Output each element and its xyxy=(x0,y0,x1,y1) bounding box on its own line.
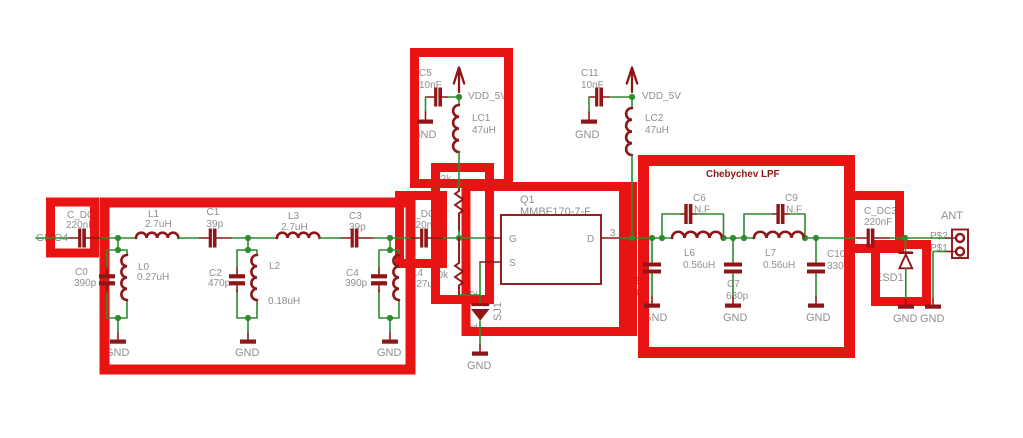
svg-text:220nF: 220nF xyxy=(864,217,892,228)
svg-text:P$2: P$2 xyxy=(930,231,948,242)
svg-text:GND: GND xyxy=(575,129,600,141)
svg-text:GND: GND xyxy=(920,313,945,325)
svg-text:VDD_5V: VDD_5V xyxy=(642,91,681,102)
svg-text:0.56uH: 0.56uH xyxy=(763,260,795,271)
resistor R1 22k xyxy=(455,189,463,231)
svg-text:C1: C1 xyxy=(207,207,220,218)
highlight box Q1 right edge extra xyxy=(628,182,637,336)
highlight box C_DC1 xyxy=(51,202,95,253)
capacitor C2 xyxy=(229,268,245,292)
svg-text:GND: GND xyxy=(467,360,492,372)
capacitor C6 bypass xyxy=(659,204,727,241)
svg-text:47uH: 47uH xyxy=(472,125,496,136)
ground ESD1 xyxy=(898,299,914,309)
capacitor C9 bypass xyxy=(741,204,808,241)
inductor L2 xyxy=(251,255,257,300)
svg-text:Chebychev LPF: Chebychev LPF xyxy=(706,169,780,180)
ground C7 xyxy=(725,297,741,308)
wire xyxy=(101,237,136,239)
capacitor C_DC3 xyxy=(858,229,890,248)
capacitor C0 xyxy=(99,268,115,292)
svg-text:L6: L6 xyxy=(684,248,696,259)
svg-text:470p: 470p xyxy=(208,278,231,289)
pin G wire xyxy=(487,237,501,239)
highlight box C_DC3 xyxy=(850,196,900,249)
ground branch3 xyxy=(382,333,398,344)
wire xyxy=(804,237,858,239)
svg-text:C3: C3 xyxy=(349,211,362,222)
svg-text:2.7uH: 2.7uH xyxy=(281,222,308,233)
svg-text:390p: 390p xyxy=(74,278,97,289)
svg-text:390p: 390p xyxy=(345,278,368,289)
svg-text:10nF: 10nF xyxy=(419,80,442,91)
svg-text:C10: C10 xyxy=(827,249,846,260)
ground SJ1 xyxy=(472,321,488,356)
diode ESD1 xyxy=(899,238,912,299)
inductor L7 xyxy=(754,232,804,238)
svg-text:L2: L2 xyxy=(269,261,281,272)
inductor LC1 xyxy=(453,97,459,189)
wire branch3 stem xyxy=(379,238,399,333)
capacitor C_DC1 xyxy=(69,229,101,248)
wire branch2 stem xyxy=(237,238,257,333)
svg-text:C11: C11 xyxy=(581,68,599,79)
svg-text:G: G xyxy=(509,234,517,245)
wire branch1 stem xyxy=(107,238,127,333)
svg-text:GND: GND xyxy=(377,347,402,359)
resistor R2 10k xyxy=(455,238,463,295)
ground C12 xyxy=(644,297,660,308)
svg-text:C0: C0 xyxy=(75,267,88,278)
svg-text:39p: 39p xyxy=(207,219,224,230)
capacitor C11 xyxy=(589,88,609,107)
svg-text:C5: C5 xyxy=(419,68,432,79)
wire xyxy=(232,237,277,239)
transistor Q1 xyxy=(501,215,601,284)
wire xyxy=(890,237,947,239)
svg-text:S: S xyxy=(509,258,516,269)
wire xyxy=(609,96,633,98)
highlight box ESD1 xyxy=(876,245,927,302)
svg-text:ANT: ANT xyxy=(941,210,963,222)
inductor L0 xyxy=(121,255,127,300)
highlight box input filter xyxy=(105,203,411,370)
pin S wire xyxy=(480,261,501,263)
svg-text:0.18uH: 0.18uH xyxy=(268,296,300,307)
supply VDD_5V arrow left xyxy=(454,68,464,101)
wire xyxy=(374,237,412,239)
svg-text:C9: C9 xyxy=(785,193,798,204)
diode SJ1 xyxy=(472,305,489,320)
wire P$1 to ground xyxy=(925,252,946,309)
node GPIO4 net label xyxy=(36,237,69,239)
capacitor C4 xyxy=(371,268,387,292)
svg-text:680p: 680p xyxy=(726,291,749,302)
node B junction xyxy=(245,235,251,241)
node C junction xyxy=(387,235,393,241)
svg-text:Q1: Q1 xyxy=(520,194,535,206)
svg-text:C6: C6 xyxy=(693,193,706,204)
pin D wire xyxy=(601,237,620,239)
highlight box Chebychev xyxy=(644,161,850,353)
svg-text:GND: GND xyxy=(893,313,918,325)
highlight box C5 VDD xyxy=(415,53,509,184)
svg-text:L7: L7 xyxy=(765,248,777,259)
inductor L1 xyxy=(136,233,178,238)
connector ANT P$2 P$1 xyxy=(946,230,968,259)
ground branch1 xyxy=(110,333,126,344)
wire gate stub xyxy=(458,231,460,238)
svg-text:LC1: LC1 xyxy=(472,113,491,124)
capacitor C12 xyxy=(643,235,661,297)
wire to diode xyxy=(459,262,480,302)
wire xyxy=(722,237,754,239)
highlight box resistors xyxy=(436,168,490,300)
node A junction xyxy=(115,235,121,241)
wire xyxy=(178,237,199,239)
svg-text:0.27uH: 0.27uH xyxy=(137,272,169,283)
svg-text:GND: GND xyxy=(723,312,748,324)
svg-text:C_DC3: C_DC3 xyxy=(864,206,897,217)
wire xyxy=(319,237,341,239)
capacitor C10 xyxy=(807,235,825,297)
ground C5 xyxy=(417,97,433,124)
capacitor C1 xyxy=(200,229,232,248)
node drain junction xyxy=(629,235,635,241)
supply VDD_5V arrow right xyxy=(627,68,637,101)
capacitor C3 xyxy=(342,229,374,248)
svg-text:MMBF170-7-F: MMBF170-7-F xyxy=(520,206,591,218)
ground C11 xyxy=(581,97,597,124)
svg-text:GND: GND xyxy=(235,347,260,359)
node gate junction xyxy=(456,235,462,241)
wire drain to node xyxy=(620,237,672,239)
ground branch2 xyxy=(240,333,256,344)
ground C10 xyxy=(808,297,824,308)
svg-text:VDD_5V: VDD_5V xyxy=(468,91,507,102)
inductor L3 xyxy=(277,233,319,238)
svg-text:2.7uH: 2.7uH xyxy=(145,219,172,230)
svg-text:0.56uH: 0.56uH xyxy=(683,260,715,271)
svg-text:47uH: 47uH xyxy=(645,125,669,136)
capacitor C7 xyxy=(724,235,742,297)
highlight box C_DC2 xyxy=(400,196,443,264)
svg-text:L3: L3 xyxy=(288,211,300,222)
inductor LC2 xyxy=(626,97,632,238)
svg-text:D: D xyxy=(587,234,594,245)
wire xyxy=(443,237,487,239)
wire xyxy=(447,96,459,98)
highlight box Q1 xyxy=(466,187,624,332)
svg-text:GND: GND xyxy=(806,312,831,324)
svg-text:SJ1: SJ1 xyxy=(492,302,504,321)
inductor L6 xyxy=(672,232,722,238)
node ant junction xyxy=(902,235,908,241)
inductor L4 xyxy=(393,255,399,300)
capacitor C_DC2 xyxy=(411,229,443,248)
svg-text:LC2: LC2 xyxy=(645,113,664,124)
capacitor C5 xyxy=(426,88,448,107)
